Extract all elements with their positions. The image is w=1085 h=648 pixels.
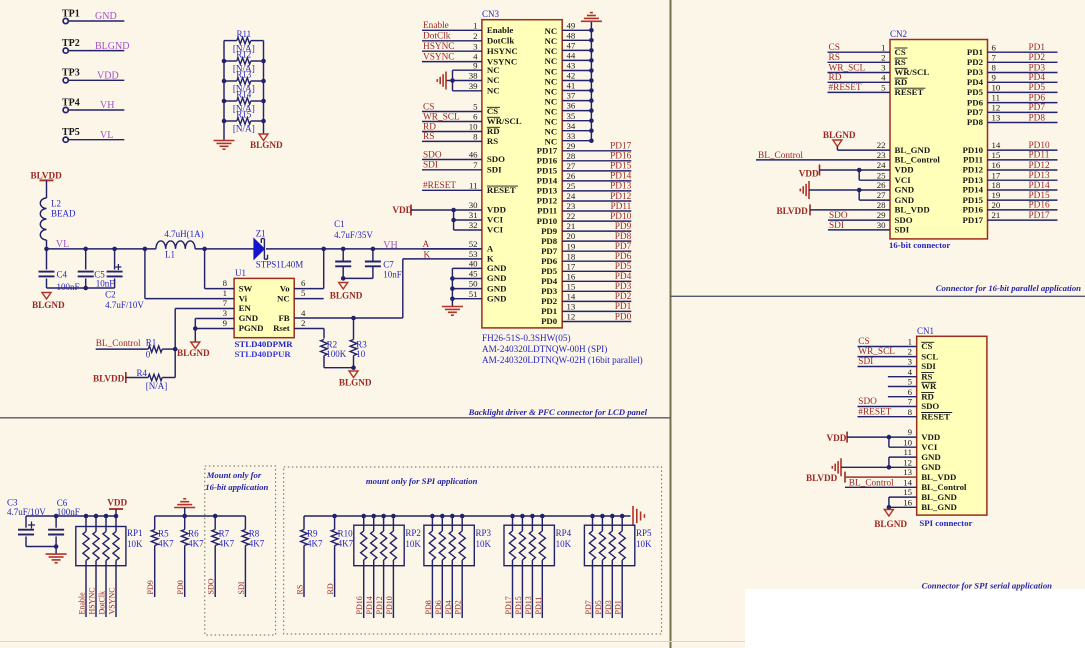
svg-text:13: 13 [992, 113, 1001, 123]
svg-text:7: 7 [223, 298, 228, 308]
svg-text:23: 23 [877, 150, 886, 160]
wire VDD to pins 30 31 32 [411, 208, 482, 230]
svg-text:30: 30 [877, 220, 886, 230]
svg-text:8: 8 [473, 132, 478, 142]
pin 4 VSYNC [473, 52, 517, 67]
svg-text:PD17: PD17 [504, 596, 513, 614]
wire Vi pin 1 [145, 249, 234, 299]
wire GND pins 26 27 [809, 188, 890, 200]
pin 15 BL_GND [903, 487, 957, 502]
node WR_SCL [828, 63, 891, 73]
svg-text:BL_GND: BL_GND [921, 492, 957, 502]
svg-text:19: 19 [567, 241, 576, 251]
svg-text:32: 32 [469, 220, 478, 230]
wire NC rail right [590, 21, 592, 140]
svg-text:1: 1 [223, 288, 227, 298]
node HSYNC [422, 42, 482, 52]
svg-text:RP5: RP5 [636, 528, 652, 538]
dashed box mount only for SPI [284, 467, 662, 634]
svg-text:14: 14 [567, 292, 576, 302]
junction FB R3 [351, 316, 356, 321]
pin 3 GND [223, 308, 259, 323]
node RS [422, 132, 482, 142]
svg-text:RP2: RP2 [405, 528, 421, 538]
resistor element PD13 [529, 514, 535, 618]
pin 17 PD13 [962, 170, 1057, 185]
wire NC ground rail [446, 70, 482, 91]
svg-text:SDO: SDO [895, 215, 913, 225]
svg-text:12: 12 [903, 457, 912, 467]
junction C7 [371, 247, 376, 252]
svg-text:SDI: SDI [921, 361, 936, 371]
pin 37 NC [544, 91, 593, 107]
pin 45 GND [469, 269, 507, 284]
test point TP5 [62, 127, 80, 142]
pin 23 BL_Control [877, 150, 941, 165]
resistor element PD6 [439, 514, 445, 618]
svg-text:PD15: PD15 [1029, 191, 1051, 201]
resistor element PD3 [609, 514, 615, 618]
svg-text:35: 35 [567, 111, 576, 121]
wire Rset to R2 [294, 329, 324, 339]
resistor R11 [224, 29, 264, 53]
pin 1 CS [908, 337, 935, 352]
svg-text:44: 44 [567, 51, 576, 61]
wire stub [888, 386, 917, 388]
svg-text:BLGND: BLGND [32, 300, 65, 310]
pin 20 PD8 [541, 231, 632, 246]
pin 2 Rset [273, 318, 305, 333]
svg-text:30: 30 [469, 200, 478, 210]
svg-text:VDD: VDD [107, 498, 127, 508]
svg-text:BL_VDD: BL_VDD [921, 472, 956, 482]
pin 28 PD16 [537, 151, 632, 166]
svg-text:Enable: Enable [487, 25, 513, 35]
svg-text:SDO: SDO [207, 578, 216, 594]
svg-text:NC: NC [487, 86, 500, 96]
svg-text:3: 3 [908, 357, 913, 367]
svg-text:VDD: VDD [799, 168, 819, 178]
svg-text:43: 43 [567, 61, 576, 71]
svg-text:4K7: 4K7 [249, 538, 265, 548]
pin 9 PD4 [967, 72, 1058, 87]
svg-text:RP3: RP3 [476, 528, 492, 538]
junction [213, 514, 218, 519]
svg-text:PD8: PD8 [967, 117, 984, 127]
wire BL_Control [96, 348, 149, 350]
pin 2 SCL [908, 347, 939, 362]
svg-text:10: 10 [992, 83, 1001, 93]
node #RESET [828, 83, 891, 93]
svg-text:C2: C2 [105, 289, 116, 299]
svg-text:24: 24 [877, 160, 886, 170]
svg-text:47: 47 [567, 41, 576, 51]
svg-text:AM-240320LDTNQW-02H (16bit par: AM-240320LDTNQW-02H (16bit parallel) [482, 355, 643, 365]
svg-text:SPI connector: SPI connector [919, 518, 972, 528]
node SDO [858, 397, 917, 407]
ground below C6 [46, 547, 67, 563]
svg-text:PD3: PD3 [541, 286, 558, 296]
capacitor C7 [365, 249, 402, 280]
wire diode to pin 52 [266, 248, 482, 250]
svg-text:R4: R4 [137, 368, 148, 378]
svg-text:15: 15 [992, 150, 1001, 160]
ground above NC rail [581, 13, 602, 22]
svg-text:NC: NC [544, 36, 557, 46]
pin 8 RS [473, 132, 498, 147]
svg-text:SDI: SDI [487, 165, 502, 175]
svg-text:BL_GND: BL_GND [921, 502, 957, 512]
svg-text:11: 11 [992, 93, 1000, 103]
svg-text:15: 15 [903, 487, 912, 497]
svg-text:Mount only for: Mount only for [206, 470, 262, 480]
svg-text:SCL: SCL [921, 351, 938, 361]
pin 7 SDI [473, 160, 502, 175]
junction [222, 99, 227, 104]
resistor R8 4K7 [242, 516, 265, 597]
svg-text:20: 20 [992, 200, 1001, 210]
pin 22 PD10 [537, 211, 632, 226]
svg-text:SDI: SDI [237, 581, 246, 594]
svg-text:Connector for SPI serial appli: Connector for SPI serial application [922, 580, 1052, 590]
svg-text:17: 17 [567, 261, 576, 271]
svg-text:NC: NC [544, 86, 557, 96]
resistor element PD1 [619, 514, 625, 618]
inductor L1 [156, 229, 204, 259]
svg-text:Enable: Enable [78, 592, 87, 615]
svg-text:46: 46 [469, 150, 478, 160]
svg-text:AM-240320LDTNQW-00H (SPI): AM-240320LDTNQW-00H (SPI) [482, 344, 607, 354]
svg-text:5: 5 [301, 288, 306, 298]
node RD [828, 73, 891, 83]
svg-text:PD12: PD12 [537, 196, 558, 206]
capacitor C2 polarized [105, 249, 144, 310]
pin 4 RS [908, 367, 935, 382]
svg-text:C7: C7 [383, 259, 394, 269]
svg-text:PD11: PD11 [963, 155, 983, 165]
pin 11 RESET [469, 180, 518, 195]
svg-text:10: 10 [903, 437, 912, 447]
svg-text:PD13: PD13 [962, 175, 983, 185]
pin 13 PD1 [541, 302, 632, 317]
svg-text:C1: C1 [334, 219, 345, 229]
svg-text:C4: C4 [57, 270, 68, 280]
svg-text:PD7: PD7 [1029, 103, 1046, 113]
pin 30 SDI [877, 220, 910, 235]
inductor L2 [40, 198, 76, 240]
svg-text:6: 6 [908, 387, 913, 397]
svg-text:PD6: PD6 [615, 252, 632, 262]
svg-text:26: 26 [877, 180, 886, 190]
svg-text:PD4: PD4 [615, 272, 632, 282]
svg-text:GND: GND [487, 283, 507, 293]
node DotClk [422, 32, 482, 42]
wire left rail of resistor stack [223, 41, 225, 139]
svg-text:PD1: PD1 [541, 306, 557, 316]
svg-text:Rset: Rset [273, 323, 290, 333]
svg-text:8: 8 [992, 63, 997, 73]
svg-text:PD14: PD14 [365, 596, 374, 614]
svg-text:PD4: PD4 [444, 600, 453, 614]
svg-text:RP1: RP1 [127, 528, 143, 538]
svg-text:7: 7 [473, 160, 478, 170]
svg-text:100nF: 100nF [57, 282, 80, 292]
svg-text:14: 14 [903, 477, 912, 487]
resistor element HSYNC [93, 514, 99, 617]
wire pin 13 [845, 476, 917, 478]
resistor pack RP3 10K [424, 525, 492, 566]
svg-text:36: 36 [567, 101, 576, 111]
pin 48 NC [544, 30, 593, 46]
wire GND pins 11 12 [841, 457, 917, 470]
test point TP1 [62, 8, 80, 23]
svg-text:PD0: PD0 [176, 580, 185, 594]
svg-text:10K: 10K [476, 539, 492, 549]
pin 32 VCI [469, 220, 504, 235]
power symbol VDD above RP1 [107, 498, 127, 516]
pin 8 PD3 [967, 63, 1058, 78]
wire Vo riser [294, 249, 324, 289]
resistor pack RP4 10K [504, 525, 572, 566]
white scan margin bottom-right [745, 589, 1085, 648]
svg-text:R11: R11 [236, 29, 251, 39]
svg-text:NC: NC [544, 106, 557, 116]
svg-text:0: 0 [146, 349, 151, 359]
test point TP3 [62, 68, 80, 83]
svg-text:PD10: PD10 [610, 212, 632, 222]
svg-text:R5: R5 [158, 529, 169, 539]
svg-text:PD2: PD2 [1029, 53, 1046, 63]
svg-text:PD1: PD1 [615, 302, 632, 312]
svg-text:BLGND: BLGND [874, 519, 907, 529]
capacitor C4 [39, 249, 80, 292]
svg-text:22: 22 [877, 140, 886, 150]
svg-text:VDD: VDD [921, 432, 940, 442]
wire stub [888, 396, 917, 398]
svg-text:6: 6 [473, 112, 478, 122]
svg-text:PD2: PD2 [615, 292, 632, 302]
svg-text:NC: NC [487, 75, 500, 85]
pin 17 PD5 [541, 261, 632, 276]
svg-text:TP4: TP4 [62, 97, 80, 108]
svg-text:12: 12 [567, 312, 576, 322]
pin 1 CS [881, 42, 907, 57]
pin 25 PD13 [537, 181, 632, 196]
svg-text:PD2: PD2 [967, 57, 984, 67]
power symbol VDD at CN1 [827, 432, 848, 443]
svg-text:BLVDD: BLVDD [31, 171, 63, 181]
svg-text:VCI: VCI [895, 175, 912, 185]
svg-text:PD14: PD14 [610, 172, 632, 182]
pin 53 K [469, 249, 494, 264]
svg-text:18: 18 [992, 180, 1001, 190]
junction C1 [341, 247, 346, 252]
connector CN3 [482, 9, 643, 365]
svg-text:26: 26 [567, 171, 576, 181]
test point TP4 [62, 97, 80, 112]
pin 16 PD4 [541, 271, 632, 286]
svg-text:15: 15 [567, 281, 576, 291]
pin 18 PD6 [541, 251, 632, 266]
svg-text:FB: FB [278, 313, 289, 323]
pin 21 PD9 [541, 221, 632, 236]
pin 4 FB [278, 308, 306, 323]
svg-text:PD15: PD15 [610, 162, 632, 172]
svg-text:PD10: PD10 [962, 145, 983, 155]
svg-text:VCI: VCI [487, 215, 504, 225]
svg-text:A: A [487, 244, 494, 254]
svg-text:5: 5 [908, 377, 913, 387]
resistor element PD7 [589, 514, 595, 618]
svg-text:Connector for 16-bit parallel: Connector for 16-bit parallel applicatio… [936, 283, 1081, 293]
svg-text:VSYNC: VSYNC [108, 587, 117, 614]
svg-text:BLGND: BLGND [823, 130, 856, 140]
pin 29 SDO [877, 210, 913, 225]
svg-text:53: 53 [469, 249, 478, 259]
svg-text:Vi: Vi [239, 293, 248, 303]
junction C5 [83, 247, 88, 252]
pin 26 GND [877, 180, 914, 195]
pin 12 PD0 [541, 312, 632, 327]
pin 3 SDI [908, 357, 937, 372]
svg-text:[N/A]: [N/A] [233, 124, 255, 134]
svg-text:21: 21 [992, 210, 1001, 220]
junction C2 [112, 247, 117, 252]
wire right rail of resistor stack [263, 41, 265, 134]
svg-text:3: 3 [473, 41, 478, 51]
pin 27 PD15 [537, 161, 632, 176]
pin 10 VCI [903, 437, 938, 452]
svg-text:PD10: PD10 [385, 596, 394, 614]
power symbol VDD at CN2 [799, 165, 820, 179]
svg-text:SDI: SDI [895, 225, 910, 235]
svg-text:4.7uH(1A): 4.7uH(1A) [164, 229, 203, 239]
node #RESET [422, 181, 482, 191]
pin 9 PGND [223, 318, 264, 333]
svg-text:52: 52 [469, 239, 478, 249]
resistor element PD14 [371, 514, 377, 618]
node SDO [422, 150, 482, 160]
svg-text:4K7: 4K7 [158, 538, 174, 548]
svg-text:PD8: PD8 [541, 236, 558, 246]
pin 11 GND [904, 447, 941, 462]
wire TP1 [69, 20, 125, 22]
svg-text:39: 39 [469, 81, 478, 91]
capacitor C3 polarized [7, 498, 46, 547]
wire A to pin 52 [422, 248, 482, 250]
svg-text:PD6: PD6 [434, 600, 443, 614]
svg-text:23: 23 [567, 201, 576, 211]
svg-text:48: 48 [567, 30, 576, 40]
svg-text:PD17: PD17 [537, 146, 558, 156]
ground BLGND above pin 22 [823, 130, 856, 150]
vertical section divider [670, 0, 672, 648]
svg-text:4K7: 4K7 [307, 538, 323, 548]
svg-text:R12: R12 [236, 49, 251, 59]
pin 21 PD17 [962, 210, 1057, 225]
svg-text:2: 2 [908, 347, 912, 357]
svg-text:41: 41 [567, 81, 576, 91]
pin 7 PD2 [967, 52, 1058, 67]
svg-text:PD5: PD5 [615, 262, 632, 272]
wire PGND pin 9 [193, 326, 234, 342]
junction [83, 286, 88, 291]
svg-text:R15: R15 [236, 109, 252, 119]
svg-text:PD3: PD3 [1029, 63, 1046, 73]
ground at CN1 pin 12 [840, 458, 842, 476]
svg-text:PD17: PD17 [610, 142, 632, 152]
svg-text:PD14: PD14 [962, 185, 983, 195]
svg-text:11: 11 [904, 447, 912, 457]
pin 3 HSYNC [473, 41, 518, 56]
pin 5 NC [277, 288, 306, 303]
svg-text:BLVDD: BLVDD [806, 473, 838, 483]
node CS [828, 43, 891, 53]
svg-text:19: 19 [992, 190, 1001, 200]
svg-text:HSYNC: HSYNC [487, 46, 518, 56]
pin 35 NC [544, 111, 593, 127]
faint bottom sheet border [0, 641, 745, 643]
svg-text:2: 2 [473, 31, 477, 41]
junction R1 EN R4 [173, 347, 178, 352]
ground right of SPI rail [632, 506, 634, 526]
svg-text:6: 6 [301, 278, 306, 288]
resistor R6 4K7 [181, 516, 204, 597]
svg-text:16: 16 [903, 497, 912, 507]
svg-text:3: 3 [881, 63, 886, 73]
svg-text:10: 10 [469, 122, 478, 132]
pin 27 GND [877, 190, 914, 205]
pin 14 BL_Control [903, 477, 967, 492]
svg-text:100K: 100K [326, 349, 347, 359]
svg-text:PD4: PD4 [967, 77, 984, 87]
svg-text:R1: R1 [146, 337, 157, 347]
resistor element VSYNC [113, 514, 119, 617]
svg-text:13: 13 [567, 302, 576, 312]
svg-text:PD2: PD2 [541, 296, 558, 306]
pin 33 NC [544, 131, 593, 147]
pin 28 BL_VDD [877, 200, 930, 215]
svg-text:PD16: PD16 [537, 156, 558, 166]
svg-text:BLGND: BLGND [177, 348, 210, 358]
svg-text:GND: GND [921, 452, 941, 462]
svg-text:Backlight driver & PFC connect: Backlight driver & PFC connector for LCD… [468, 407, 648, 417]
svg-text:DotClk: DotClk [98, 591, 107, 615]
pin 51 GND [469, 289, 507, 304]
connector CN1 [917, 326, 987, 528]
ground above R5-R8 rail [174, 499, 195, 516]
node SDI [422, 161, 482, 171]
resistor R4 [137, 349, 176, 391]
junction [341, 276, 346, 281]
svg-text:BLGND: BLGND [330, 290, 363, 300]
svg-text:21: 21 [567, 221, 576, 231]
node SDI [828, 221, 890, 231]
svg-text:VCI: VCI [921, 442, 938, 452]
pin 16 BL_GND [903, 497, 957, 512]
svg-text:PD8: PD8 [424, 600, 433, 614]
pin 14 PD10 [962, 140, 1057, 155]
capacitor C5 [78, 249, 115, 289]
svg-text:L2: L2 [51, 199, 61, 209]
pin 18 PD14 [962, 180, 1057, 195]
svg-text:49: 49 [567, 20, 576, 30]
ground BLGND below C4 [32, 293, 65, 311]
node RS [828, 53, 891, 63]
svg-text:PD11: PD11 [534, 597, 543, 615]
pin 4 RD [881, 72, 907, 87]
pin 19 PD15 [962, 190, 1057, 205]
